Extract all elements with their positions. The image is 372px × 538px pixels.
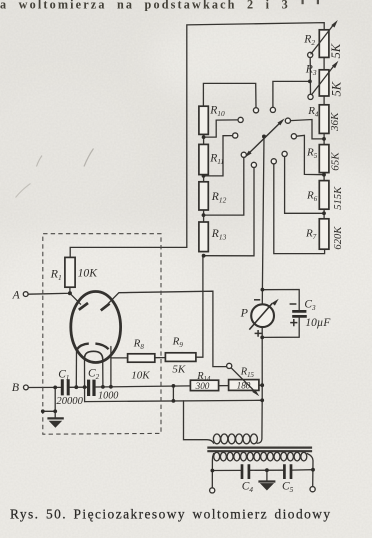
tube diode anode left plate [79, 303, 88, 310]
svg-text:P: P [240, 306, 249, 320]
meter P needle [249, 299, 279, 330]
wire tube cathode lead 4 [110, 347, 112, 387]
wire switch contact L4 to R6-R7 junction [285, 157, 324, 214]
resistor R7 [319, 219, 329, 249]
wire A node to left diode anode [70, 293, 81, 304]
capacitor C4 plates [242, 464, 249, 479]
resistor R1 [65, 257, 75, 287]
SECTION: switch contacts and terminals [23, 52, 315, 493]
node R10-R11 [202, 135, 206, 139]
wire switch contact U4 to R2/R3 wiper node [273, 81, 310, 107]
capacitor C3 leads [298, 310, 300, 317]
wire switch contact U6 to R5-R6 junction [297, 135, 324, 174]
resistor R13 [199, 222, 208, 252]
capacitor C3 plates [292, 311, 307, 316]
wire cathode to R8 [111, 357, 128, 359]
resistor R9 [165, 353, 196, 362]
switch contact U1 [238, 117, 243, 122]
svg-text:a woltomierza na podstawkach 2: a woltomierza na podstawkach 2 i 3 [0, 0, 290, 11]
node secondary left [211, 469, 215, 473]
tap circle above R15 [227, 363, 232, 368]
ground symbol at filter center tap [258, 482, 275, 490]
capacitor C2 plates [89, 380, 94, 396]
C3 minus sign [290, 303, 297, 305]
node R13 bottom [202, 254, 206, 258]
node R12-R13 [202, 213, 206, 217]
node cathode lead 1 [74, 385, 78, 389]
node A / R1 bottom [68, 291, 72, 295]
node ground stem [53, 409, 57, 413]
wire resistor chain R2-R7 links [323, 57, 325, 218]
wire R12-R13 junction to switch contact L1 [204, 158, 244, 216]
wire C4 C5 filter row [212, 469, 313, 472]
capacitor C5 plates [284, 464, 291, 479]
node R15 right [260, 383, 264, 387]
node R11-R12 [202, 174, 206, 178]
tube cathode arc right [95, 344, 108, 350]
resistor R11 [199, 144, 208, 174]
resistor R12 [199, 182, 208, 210]
node rail link top [172, 384, 176, 388]
svg-text:36K: 36K [329, 112, 341, 132]
resistor R3 [319, 70, 329, 96]
transformer primary winding [213, 434, 257, 444]
node filter center tap [265, 468, 269, 472]
switch contact U6 [291, 134, 296, 139]
wire R2/R3 wiper tie line [309, 58, 311, 95]
tube cathode arc left [77, 344, 89, 350]
node secondary right [311, 468, 315, 472]
svg-text:10K: 10K [78, 266, 99, 279]
wire A input to R1 bottom [28, 287, 70, 294]
pencil scratch 2 [37, 156, 43, 167]
meter minus sign [254, 299, 260, 301]
switch wiper double arrow [245, 118, 285, 157]
switch contact L3 [271, 159, 276, 164]
switch contact L1 [241, 152, 246, 157]
wire R1 top to R2 top (main HT rail) [70, 23, 324, 258]
wire link upper to lower rail at x173 [172, 386, 174, 401]
wire R10-R11 junction to switch contact U1 [204, 120, 238, 137]
tube V1 envelope [71, 292, 121, 363]
transformer secondary winding [214, 452, 307, 461]
svg-text:10K: 10K [131, 370, 150, 382]
node lower rail at meter line [260, 398, 264, 402]
tube heater dome [84, 351, 102, 359]
resistor R6 [319, 181, 329, 210]
svg-text:515K: 515K [333, 186, 344, 210]
node heater lead 3 [101, 385, 105, 389]
capacitor C1 plates [62, 379, 68, 395]
resistor R2 [319, 30, 329, 58]
svg-text:B: B [12, 380, 20, 394]
transformer secondary left lead [212, 454, 213, 488]
wire switch contact L3 to R7 bottom [274, 164, 325, 254]
ground symbol at C1 [47, 411, 63, 427]
node rail link bottom [172, 399, 176, 403]
switch contact U2 [233, 133, 238, 138]
resistor R14 [190, 380, 218, 390]
pot arrow through R2 [311, 20, 338, 54]
resistor R4 [319, 105, 329, 134]
switch contact U5 [285, 118, 290, 123]
node R6-R7 [322, 211, 326, 215]
terminal B [24, 385, 29, 390]
node meter top [261, 288, 265, 292]
svg-text:65K: 65K [330, 152, 342, 171]
wire C3 bottom to meter bottom [262, 318, 299, 338]
svg-text:20000: 20000 [56, 396, 83, 407]
SECTION: components [65, 30, 329, 391]
tube diode anode right plate [101, 304, 110, 311]
svg-text:10µF: 10µF [305, 317, 331, 329]
pencil scratch 1 [16, 184, 31, 198]
wire R8 to R9 [155, 357, 166, 359]
node cathode lead 4 [109, 385, 113, 389]
wire R11-R12 junction to switch contact U2 [204, 136, 233, 176]
node C1 left [53, 386, 57, 390]
meter plus sign [255, 330, 262, 337]
resistor R10 [199, 106, 208, 134]
wire ground branch center tap [266, 470, 268, 481]
switch contact U4 [270, 107, 275, 112]
shield enclosure (dashed) [43, 234, 161, 435]
wire right diode anode to R15 tap circle [108, 291, 226, 366]
pot arrow through R3 [312, 61, 339, 95]
svg-text:5K: 5K [172, 364, 186, 376]
switch contact L4 [282, 151, 287, 156]
transformer core [207, 448, 312, 452]
wire resistor chain R10-R13 links [203, 134, 205, 222]
wire tube heater lead 3 [102, 359, 104, 387]
SECTION: junction dots [41, 80, 326, 473]
resistor R5 [319, 145, 329, 173]
resistor R8 [128, 354, 155, 362]
resistor R15 [229, 380, 259, 391]
node shield ground left [41, 409, 45, 413]
wiper tap circle at R2 [308, 52, 313, 57]
wire R10 top to switch contact U3 [203, 83, 256, 107]
wire tube heater lead 2 down through B line to lower rail [84, 359, 86, 402]
node R2R3 wiper tie [308, 80, 312, 84]
svg-text:5K: 5K [330, 81, 344, 96]
wire tube cathode lead 1 [75, 350, 77, 387]
svg-text:620K: 620K [333, 226, 344, 250]
svg-text:Rys. 50. Pięciozakresowy wolto: Rys. 50. Pięciozakresowy woltomierz diod… [10, 507, 332, 522]
terminal heater output right [310, 487, 315, 492]
C3 plus sign [290, 319, 297, 326]
wire B line (C1 C2 coupling row) [28, 385, 262, 387]
svg-text:1000: 1000 [98, 390, 118, 401]
node R5-R6 [322, 173, 326, 177]
trimmer arrow through R15 [231, 368, 259, 396]
meter P body [251, 304, 274, 327]
svg-text:A: A [12, 288, 21, 301]
terminal A [23, 292, 28, 297]
terminal heater output left [210, 488, 215, 493]
wiper tap circle at R3 [308, 94, 313, 99]
transformer secondary right lead [307, 454, 313, 487]
SECTION: ink [28, 23, 325, 488]
wire R13 bottom to switch contact L2 [204, 168, 254, 256]
wire meter top to C3 top [262, 290, 299, 311]
node meter bottom [260, 336, 264, 340]
svg-text:180: 180 [237, 381, 251, 391]
svg-text:5K: 5K [329, 43, 343, 58]
node wiper pivot [262, 135, 266, 139]
pencil scratch 3 [84, 149, 94, 167]
svg-text:300: 300 [195, 381, 210, 391]
wire transformer primary left lead [184, 401, 214, 443]
wire ground branch at C1 [43, 387, 55, 411]
page number 47 (cut off) [302, 0, 304, 4]
wire R9 right up to R13 bottom [196, 256, 203, 357]
node heater lead 2 [83, 385, 87, 389]
wire lower rail (heater return) [85, 400, 263, 401]
wire switch contact U5 to R4-R5 junction [291, 120, 325, 139]
wire switch wiper pivot down to meter [257, 137, 264, 444]
switch contact U3 [253, 108, 258, 113]
node R4-R5 [322, 137, 326, 141]
switch contact L2 [251, 162, 256, 167]
